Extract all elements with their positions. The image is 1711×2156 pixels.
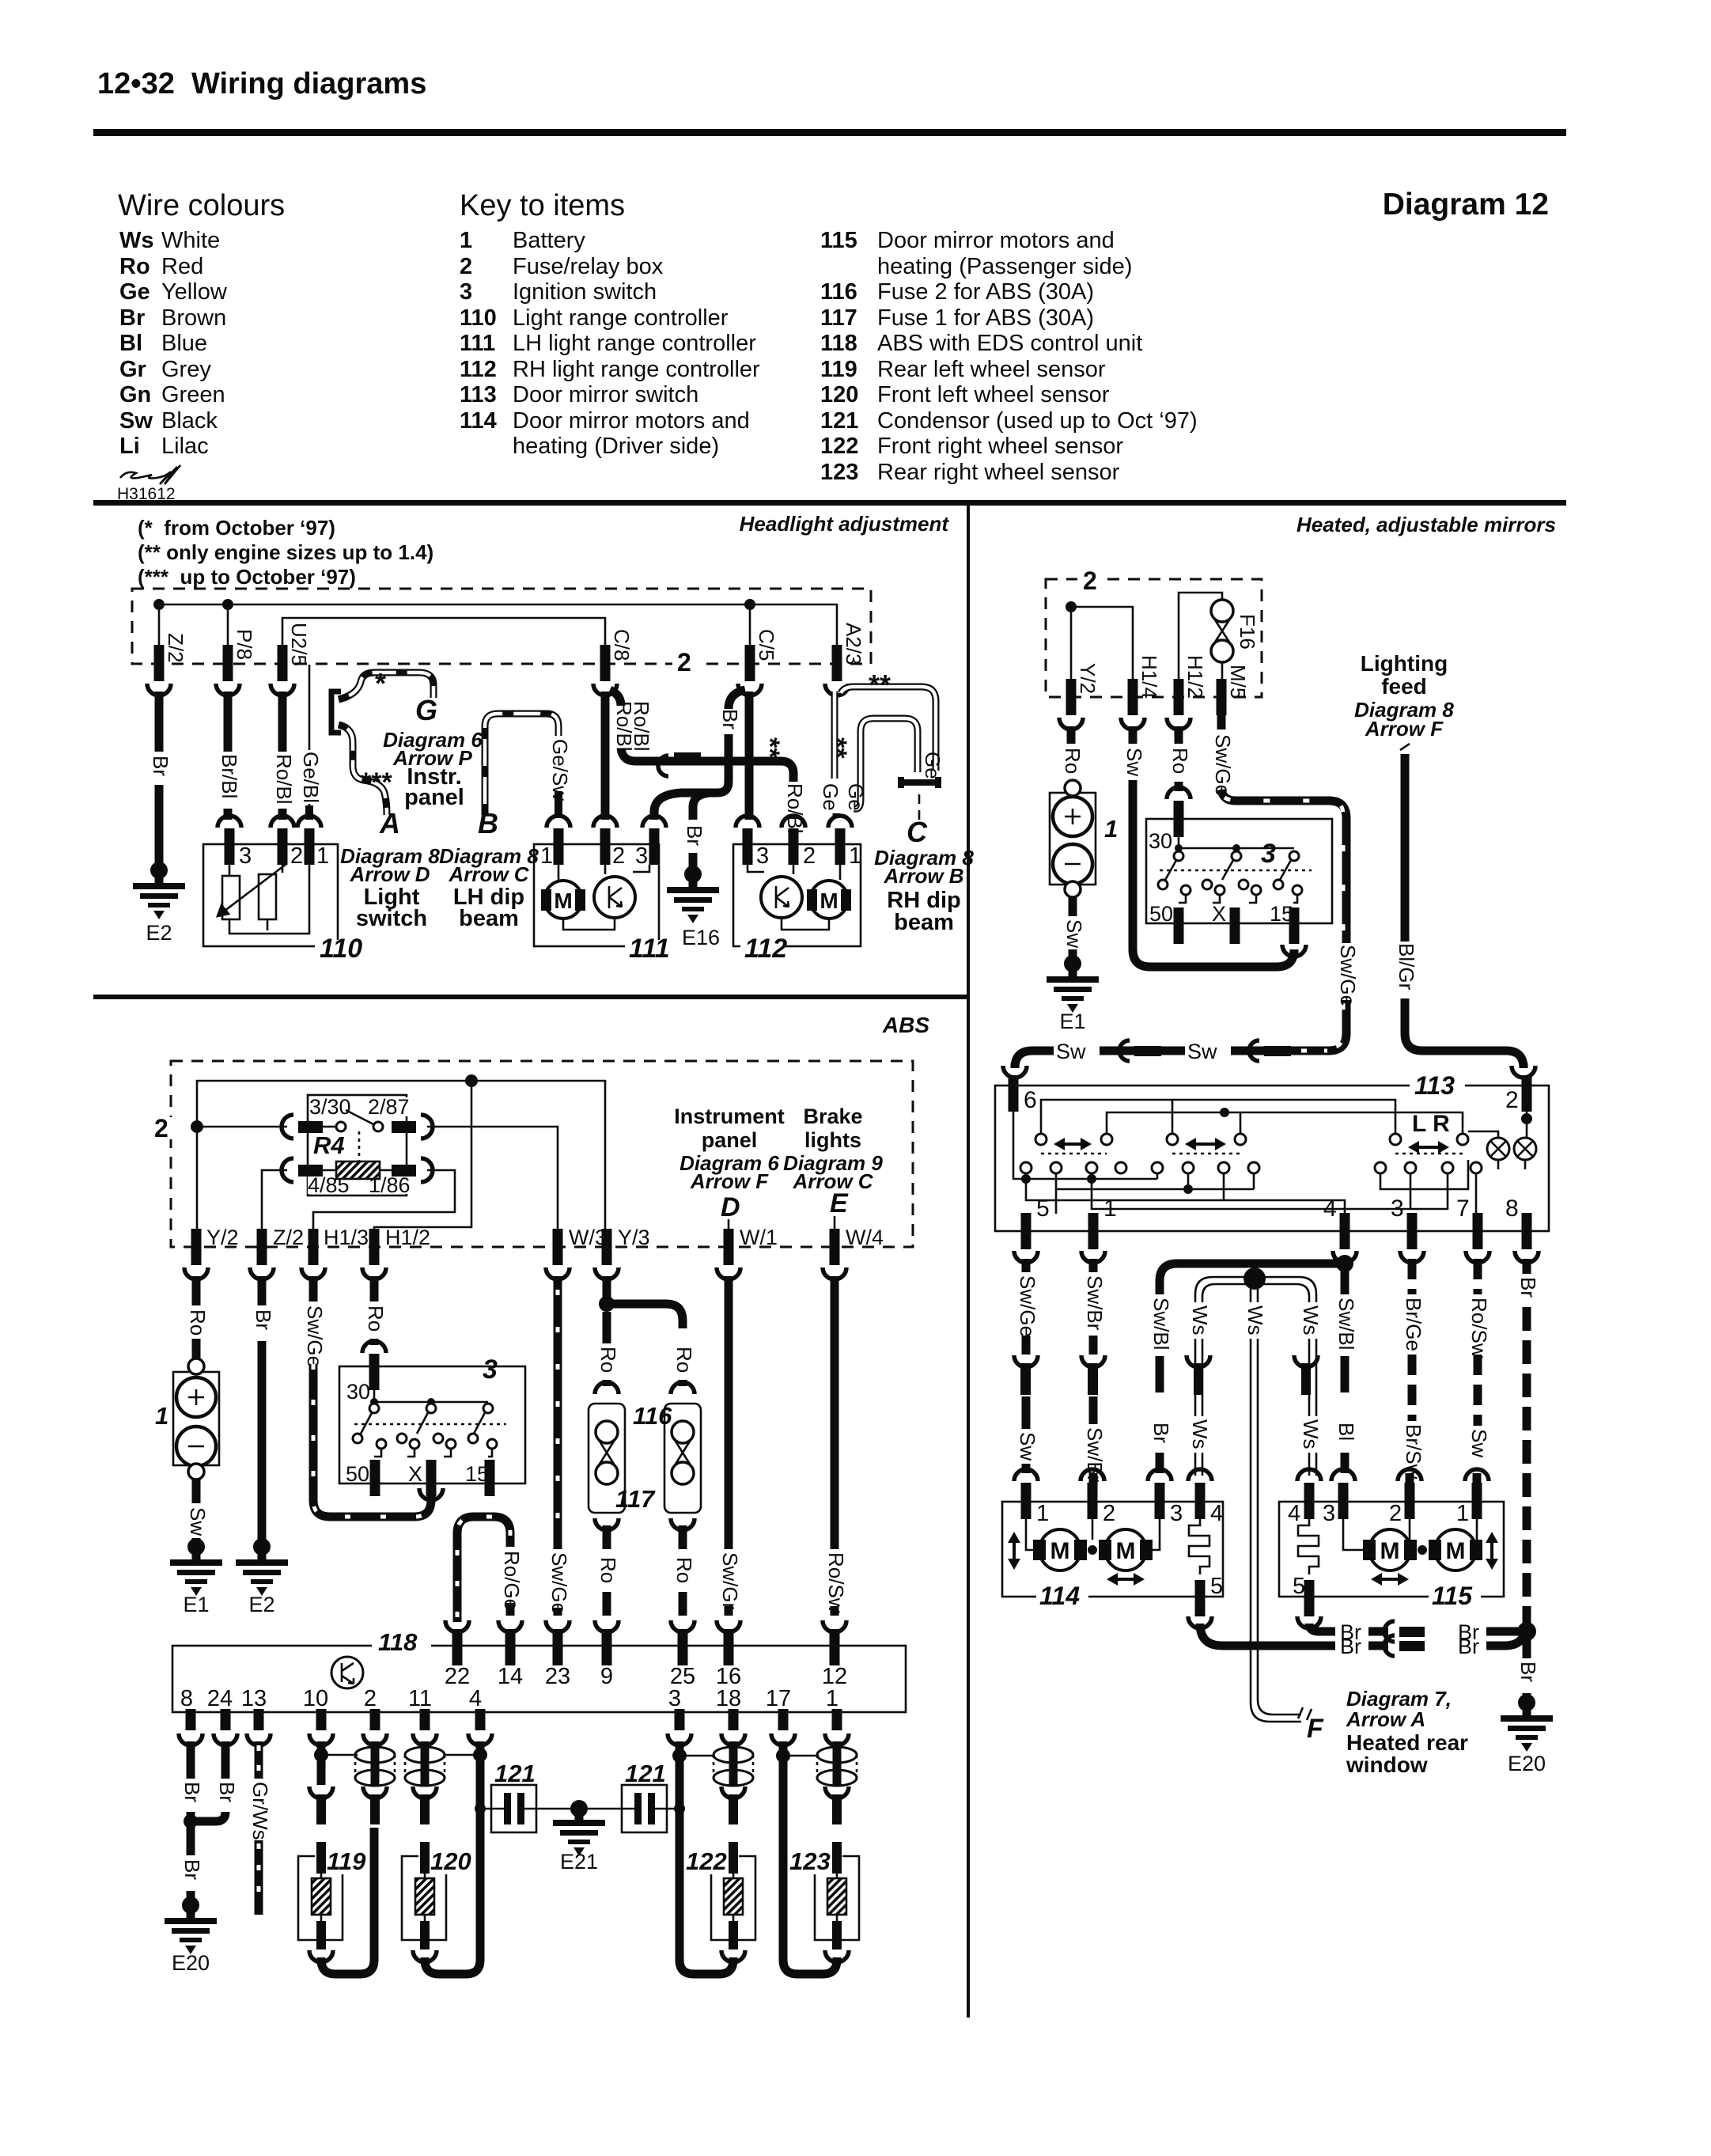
contact arms bbox=[360, 1407, 488, 1435]
svg-text:Ws: Ws bbox=[1244, 1305, 1267, 1336]
wire into sensor 120 bbox=[420, 1842, 430, 1874]
svg-text:111: 111 bbox=[629, 934, 670, 964]
sensor 119 lower bar bbox=[316, 1921, 326, 1949]
114 motor 1 bbox=[1033, 1540, 1046, 1560]
svg-text:2: 2 bbox=[1083, 566, 1097, 595]
sideways connector upper bbox=[1384, 1621, 1395, 1642]
svg-text:Fuse 1 for ABS (30A): Fuse 1 for ABS (30A) bbox=[877, 305, 1094, 331]
svg-text:123: 123 bbox=[789, 1847, 831, 1875]
svg-text:(* from October ‘97): (* from October ‘97) bbox=[138, 516, 335, 540]
svg-text:119: 119 bbox=[327, 1847, 366, 1875]
svg-text:Bl: Bl bbox=[119, 331, 142, 356]
114 pin 5 bbox=[1195, 1580, 1206, 1616]
wire Ro to battery bbox=[1067, 782, 1076, 790]
svg-text:114: 114 bbox=[1039, 1582, 1080, 1610]
coil pair 2 bbox=[421, 1745, 430, 1787]
junction dot pin 10 bbox=[314, 1748, 328, 1762]
bus wire lower inside fuse box bbox=[282, 618, 605, 645]
svg-text:B: B bbox=[478, 807, 498, 839]
rh dip beam box 112 bbox=[733, 844, 861, 946]
svg-text:Ro: Ro bbox=[596, 1347, 620, 1373]
svg-text:Li: Li bbox=[119, 434, 140, 459]
wire Y/2 down bbox=[192, 1276, 201, 1305]
pin5 cup bbox=[1014, 1251, 1038, 1263]
connector cup at X bbox=[419, 1488, 443, 1500]
pin 3 connector bbox=[675, 1694, 685, 1730]
svg-text:1: 1 bbox=[316, 843, 329, 869]
svg-text:window: window bbox=[1346, 1752, 1428, 1777]
R4 top left pin bbox=[298, 1121, 323, 1133]
svg-text:**: ** bbox=[822, 737, 852, 759]
connector into 110 pin 1 bbox=[305, 805, 313, 820]
connector Y/2 bbox=[1066, 679, 1077, 715]
sensor 123 lower bar bbox=[832, 1921, 842, 1949]
svg-text:14: 14 bbox=[498, 1664, 523, 1689]
114 motor 2 bbox=[1099, 1540, 1111, 1560]
svg-text:Front left wheel sensor: Front left wheel sensor bbox=[877, 382, 1110, 407]
svg-text:8: 8 bbox=[180, 1686, 193, 1711]
wire to 114-3 bbox=[1156, 1453, 1164, 1473]
svg-text:E20: E20 bbox=[172, 1951, 210, 1975]
wire pin 2 top bbox=[371, 1741, 380, 1749]
connector 16 bbox=[717, 1620, 740, 1632]
pin8 cup bbox=[1515, 1251, 1539, 1263]
svg-text:Sw/Ge: Sw/Ge bbox=[547, 1552, 571, 1614]
pin 1 connector bbox=[832, 1694, 842, 1730]
svg-text:LH light range controller: LH light range controller bbox=[513, 331, 756, 356]
svg-text:E1: E1 bbox=[183, 1593, 209, 1616]
sideways connector on Sw bus bbox=[1119, 1040, 1130, 1061]
svg-text:E: E bbox=[830, 1188, 849, 1218]
svg-text:Ro: Ro bbox=[672, 1557, 696, 1583]
fuse/relay box 2 dashed outline bbox=[171, 1061, 913, 1247]
pin 4 connector bbox=[475, 1694, 486, 1730]
wire M/5 striped path bbox=[1221, 790, 1346, 1051]
svg-text:Ro: Ro bbox=[186, 1309, 210, 1336]
elbow to 114-3 bbox=[1160, 1264, 1345, 1294]
wire Ro/Ge lower bbox=[506, 1603, 515, 1616]
wire 113-1 mid bbox=[1089, 1336, 1098, 1355]
svg-text:118: 118 bbox=[378, 1628, 418, 1656]
svg-text:118: 118 bbox=[820, 331, 857, 356]
svg-text:(*** up to October ‘97): (*** up to October ‘97) bbox=[138, 565, 356, 589]
wire Z/2 to E2 bbox=[258, 1341, 267, 1543]
pin 10 connector mid bbox=[309, 1787, 333, 1798]
svg-text:Green: Green bbox=[161, 382, 225, 407]
connector M/5 bbox=[1217, 679, 1227, 715]
pin 8 connector bbox=[1522, 1213, 1532, 1249]
svg-text:Yellow: Yellow bbox=[161, 279, 228, 305]
branch to E16 stub bbox=[693, 793, 710, 820]
wire C/5 right Br with stars bbox=[745, 692, 754, 820]
riser C/5 bbox=[749, 604, 751, 645]
legend bottom rule bbox=[93, 500, 1566, 506]
svg-text:Condensor (used up to Oct ‘97): Condensor (used up to Oct ‘97) bbox=[877, 408, 1198, 434]
battery 1 bbox=[173, 1372, 219, 1465]
fuse 117 bbox=[671, 1382, 695, 1394]
stub D to W/1 bbox=[728, 1219, 730, 1229]
svg-text:Br: Br bbox=[215, 1782, 239, 1802]
wire 113-1 lower bbox=[1089, 1396, 1098, 1424]
connector W/3 bbox=[553, 1229, 563, 1265]
svg-text:2: 2 bbox=[677, 648, 691, 676]
connector 30 bbox=[1167, 787, 1191, 799]
svg-text:Headlight adjustment: Headlight adjustment bbox=[740, 512, 950, 536]
fuse/relay box 2 dashed outline bbox=[1046, 579, 1262, 697]
contact links bbox=[374, 1449, 492, 1457]
wire Y/3 down bbox=[603, 1276, 611, 1298]
wire loop 119 bbox=[321, 1828, 374, 1974]
svg-text:Ws: Ws bbox=[1188, 1419, 1212, 1449]
svg-text:115: 115 bbox=[820, 228, 857, 253]
condensor left leads bbox=[484, 1808, 574, 1810]
sensor 120 lower bar bbox=[420, 1921, 430, 1949]
fuse 116 bbox=[595, 1382, 619, 1394]
white dashes on Sw bus bbox=[1301, 1049, 1327, 1053]
section divider vertical bbox=[967, 500, 970, 2018]
lh dip beam box 111 bbox=[534, 844, 659, 946]
pin7 cup bbox=[1466, 1251, 1490, 1263]
wire to 115-2 bbox=[1406, 1473, 1414, 1484]
svg-text:M: M bbox=[820, 889, 838, 913]
Ws stem label bbox=[1242, 1302, 1264, 1339]
svg-text:Br: Br bbox=[180, 1859, 204, 1880]
svg-text:3: 3 bbox=[483, 1355, 498, 1385]
connector Y/3 bbox=[602, 1229, 612, 1265]
wire 114-3 mid bbox=[1156, 1356, 1164, 1392]
connector cup pin6 bbox=[1003, 1066, 1027, 1078]
pin 3 connector bbox=[1407, 1213, 1418, 1249]
svg-text:Ro/Bl: Ro/Bl bbox=[272, 754, 296, 805]
condensor 121 left box bbox=[491, 1785, 536, 1832]
fuse F16 bbox=[1211, 600, 1233, 622]
wire into sensor 122 bbox=[729, 1842, 738, 1874]
pin 18 connector bbox=[729, 1694, 739, 1730]
svg-text:Sw/Ge: Sw/Ge bbox=[303, 1305, 327, 1367]
svg-text:X: X bbox=[1212, 902, 1226, 926]
115 internal wires bbox=[1343, 1519, 1482, 1550]
connector into 112 pin 1 bbox=[828, 816, 852, 828]
svg-text:heating (Driver side): heating (Driver side) bbox=[513, 434, 719, 459]
svg-text:C/5: C/5 bbox=[755, 629, 778, 661]
pin1 cup bbox=[1081, 1251, 1105, 1263]
wire label Bl/Gr bbox=[1396, 942, 1414, 998]
thin wire Ge/Bl bbox=[309, 665, 311, 750]
wire H1/4 down Sw bbox=[1129, 726, 1138, 744]
svg-text:3: 3 bbox=[460, 279, 472, 305]
svg-text:Rear left wheel sensor: Rear left wheel sensor bbox=[877, 357, 1106, 382]
wire pin 11 bbox=[421, 1741, 430, 1749]
stem end ticks bbox=[1298, 1707, 1312, 1720]
svg-text:White: White bbox=[161, 228, 220, 253]
ABS control unit 118 box bbox=[172, 1646, 906, 1712]
wire H1/3 down bbox=[309, 1276, 318, 1302]
svg-text:1: 1 bbox=[155, 1402, 168, 1430]
svg-text:Ws: Ws bbox=[1299, 1305, 1323, 1336]
svg-text:Sw: Sw bbox=[1056, 1040, 1086, 1063]
sensor 122 lower bar bbox=[729, 1921, 738, 1949]
wire pin 13 Gr/Ws striped bbox=[255, 1741, 263, 1779]
wire to E1 bbox=[192, 1538, 201, 1543]
R4 switch contact right bbox=[373, 1122, 383, 1131]
pin 1 connector mid bbox=[825, 1787, 849, 1798]
svg-text:Br/Bl: Br/Bl bbox=[218, 754, 241, 798]
svg-text:1: 1 bbox=[1104, 815, 1118, 843]
wire Y/3 to fuse 116 bbox=[603, 1312, 611, 1343]
connector 9 bbox=[595, 1620, 619, 1632]
wire label Ro/Sw bbox=[826, 1552, 844, 1603]
connector Y/2 bbox=[191, 1229, 202, 1265]
115 vertical arrow bbox=[1490, 1540, 1493, 1562]
wire Ro to ignition 30 bbox=[1175, 782, 1183, 791]
wire Br final bbox=[1523, 1693, 1531, 1699]
svg-text:Br: Br bbox=[119, 305, 145, 331]
wire 113-1 upper bbox=[1089, 1259, 1098, 1272]
114 vertical arrow bbox=[1013, 1540, 1016, 1562]
label 114 bbox=[1036, 1589, 1088, 1605]
connector A2/3 bbox=[832, 645, 842, 681]
svg-text:Brown: Brown bbox=[161, 305, 226, 331]
dotted group2 bbox=[1172, 1153, 1240, 1155]
wire pin 8 mid bbox=[187, 1812, 195, 1855]
sensor box 123 bbox=[815, 1856, 859, 1940]
wire W/1 to 118 pin 16 bbox=[725, 1606, 733, 1616]
connector Z/2 bbox=[154, 645, 165, 681]
svg-text:4: 4 bbox=[1323, 1195, 1337, 1222]
junction dot Br bbox=[1517, 1622, 1536, 1641]
svg-text:Battery: Battery bbox=[513, 228, 585, 253]
svg-text:Fuse 2 for ABS (30A): Fuse 2 for ABS (30A) bbox=[877, 279, 1094, 305]
svg-text:Ro: Ro bbox=[1168, 748, 1192, 774]
svg-text:Y/3: Y/3 bbox=[618, 1226, 650, 1249]
svg-text:121: 121 bbox=[494, 1760, 536, 1787]
connector U2/5 bbox=[278, 645, 288, 681]
thin wire Ge/Bl lower bbox=[309, 804, 311, 815]
connector C/5 bbox=[745, 645, 755, 681]
svg-text:Arrow D: Arrow D bbox=[349, 862, 430, 886]
svg-text:Sw: Sw bbox=[119, 408, 153, 434]
svg-text:Grey: Grey bbox=[161, 357, 211, 382]
connector mid 5 bbox=[1014, 1355, 1038, 1367]
svg-text:1: 1 bbox=[849, 843, 861, 869]
svg-text:12•32 Wiring diagrams: 12•32 Wiring diagrams bbox=[97, 67, 426, 100]
R4 switch arm bbox=[346, 1110, 373, 1124]
svg-text:R4: R4 bbox=[313, 1131, 345, 1159]
svg-text:Black: Black bbox=[161, 408, 218, 434]
svg-text:Gr: Gr bbox=[119, 357, 146, 382]
svg-text:Sw: Sw bbox=[1467, 1429, 1491, 1457]
bus wire inside fuse box bbox=[159, 604, 837, 664]
wire pin 10 bbox=[317, 1741, 326, 1785]
svg-text:30: 30 bbox=[1149, 829, 1172, 853]
wire 113-3 mid dashed bbox=[1408, 1355, 1417, 1421]
svg-text:Br: Br bbox=[1516, 1277, 1540, 1298]
connector P/8 bbox=[223, 645, 233, 681]
wire pin 8 Br upper bbox=[187, 1741, 195, 1779]
sideways connector on branch bbox=[658, 756, 668, 776]
svg-text:120: 120 bbox=[820, 382, 858, 407]
svg-text:Red: Red bbox=[161, 254, 203, 279]
Ws labels upper bbox=[1187, 1302, 1209, 1339]
wire bus to R4 3/30 bbox=[197, 1126, 287, 1128]
svg-text:Ge: Ge bbox=[819, 783, 842, 811]
wire C/8 branch to 112 pin 2 bbox=[610, 690, 621, 706]
wire into sensor 123 bbox=[832, 1842, 842, 1874]
wire Ge/Sw lower into 111 pin 1 bbox=[555, 791, 562, 818]
svg-text:3: 3 bbox=[1323, 1501, 1335, 1526]
coil pair 4 bbox=[833, 1745, 842, 1787]
svg-text:Sw/Bl: Sw/Bl bbox=[1334, 1298, 1358, 1350]
svg-text:Sw/Ge: Sw/Ge bbox=[1211, 734, 1235, 796]
label 2 bbox=[1077, 571, 1104, 590]
mirror box 115 bbox=[1279, 1502, 1504, 1597]
wire to 115-1 bbox=[1473, 1473, 1482, 1484]
svg-text:121: 121 bbox=[820, 408, 858, 434]
connector H1/4 bbox=[1128, 679, 1138, 715]
svg-text:18: 18 bbox=[716, 1686, 741, 1711]
contact links bbox=[1179, 895, 1297, 903]
svg-text:3: 3 bbox=[239, 843, 252, 869]
sideways connector 2 on Sw bus bbox=[1249, 1040, 1259, 1061]
svg-text:1: 1 bbox=[1103, 1195, 1117, 1222]
113 internal mesh bbox=[1041, 1100, 1395, 1135]
svg-text:15: 15 bbox=[465, 1462, 489, 1486]
dotted row bbox=[1160, 870, 1312, 872]
111 motor M bbox=[543, 889, 555, 911]
wire Z/2 to E2 upper bbox=[155, 692, 164, 752]
R4 right top contact cup bbox=[421, 1115, 433, 1139]
svg-text:F: F bbox=[1307, 1714, 1324, 1744]
wire into fuse 117 bbox=[679, 1380, 687, 1386]
svg-text:50: 50 bbox=[346, 1462, 369, 1486]
svg-text:Sw/Ge: Sw/Ge bbox=[1016, 1275, 1039, 1337]
contact arms bbox=[1164, 854, 1294, 881]
transistor symbol K bbox=[331, 1657, 363, 1688]
svg-text:122: 122 bbox=[820, 434, 858, 459]
connector W/1 bbox=[724, 1229, 734, 1265]
115 heater zigzag bbox=[1298, 1519, 1319, 1574]
svg-text:Ws: Ws bbox=[119, 228, 154, 253]
wire pin 8 to E20 bbox=[187, 1891, 195, 1899]
svg-text:Diagram 12: Diagram 12 bbox=[1383, 188, 1549, 222]
terminal 50 bbox=[370, 1460, 380, 1496]
junction dot Z/2 bbox=[153, 599, 165, 610]
wire R4 1/86 to H1/3 bbox=[313, 1170, 455, 1229]
svg-text:G: G bbox=[415, 694, 437, 726]
svg-text:3: 3 bbox=[1170, 1501, 1183, 1526]
svg-text:114: 114 bbox=[460, 408, 497, 434]
wire to E1 bbox=[1069, 949, 1077, 959]
junction dot pins 8-24 bbox=[184, 1814, 198, 1828]
junction dot pin 17 bbox=[776, 1749, 790, 1763]
wire loop 122 bbox=[679, 1957, 733, 1974]
internal wire Y/2 riser bbox=[1071, 607, 1133, 679]
R4 switch wire bbox=[323, 1126, 335, 1128]
wire 113-3 dashed Br/Ge bbox=[1408, 1259, 1417, 1294]
wire Bl/Gr top tick bbox=[1400, 744, 1410, 750]
112 adjuster motor bbox=[761, 877, 802, 918]
sensor 120 resistor bbox=[424, 1874, 426, 1921]
svg-text:111: 111 bbox=[460, 331, 495, 356]
junction dot Y/2 riser bbox=[191, 1120, 203, 1133]
wire into sensor 119 bbox=[316, 1842, 326, 1874]
R4 bottom right pin bbox=[392, 1165, 416, 1177]
lamp right bbox=[1514, 1138, 1536, 1160]
wire C/5 branch down bbox=[708, 734, 729, 793]
label 110 bbox=[315, 940, 361, 954]
junction dot Ws bbox=[1244, 1267, 1266, 1290]
terminal X bbox=[426, 1460, 437, 1496]
lamp wiring bbox=[1521, 1113, 1532, 1124]
svg-text:Bl/Gr: Bl/Gr bbox=[1395, 943, 1418, 991]
label 2 bbox=[152, 1117, 174, 1139]
svg-text:M: M bbox=[554, 889, 572, 913]
hollow wire triple-star to A bbox=[339, 725, 387, 815]
svg-text:Br: Br bbox=[1340, 1635, 1361, 1658]
svg-text:Ro: Ro bbox=[1061, 748, 1085, 774]
wire loop 120 bbox=[425, 1763, 480, 1974]
riser P/8 bbox=[227, 604, 229, 645]
arrow group2 bbox=[1193, 1142, 1218, 1146]
svg-text:Br: Br bbox=[252, 1309, 275, 1330]
wire H1/2 to ignition 30 bbox=[370, 1339, 379, 1345]
condensor left plates bbox=[504, 1793, 511, 1824]
svg-text:Lilac: Lilac bbox=[161, 434, 209, 459]
svg-text:2: 2 bbox=[803, 843, 816, 869]
ignition internals bbox=[374, 1390, 488, 1407]
arrow group3 bbox=[1416, 1146, 1441, 1149]
svg-text:112: 112 bbox=[460, 357, 497, 382]
svg-text:Heated, adjustable mirrors: Heated, adjustable mirrors bbox=[1296, 513, 1556, 536]
ground E20 bbox=[1501, 1694, 1553, 1752]
connector H1/2 bbox=[1174, 679, 1184, 715]
svg-text:1: 1 bbox=[1456, 1501, 1469, 1526]
hollow wire inner loop to C bbox=[854, 718, 918, 809]
stub E to W/4 bbox=[834, 1216, 836, 1229]
svg-text:Br: Br bbox=[149, 756, 172, 776]
link to coil pair2 bbox=[445, 1754, 480, 1756]
wire label Sw/Gr bbox=[720, 1552, 738, 1603]
svg-text:W/4: W/4 bbox=[846, 1226, 884, 1249]
terminal 15 bbox=[485, 1460, 495, 1496]
svg-text:113: 113 bbox=[460, 382, 497, 407]
connector 25 bbox=[671, 1620, 695, 1632]
wire R4 4/85 to Z/2 bbox=[262, 1170, 287, 1229]
svg-text:Front right wheel sensor: Front right wheel sensor bbox=[877, 434, 1123, 459]
svg-text:Fuse/relay box: Fuse/relay box bbox=[513, 254, 664, 279]
Br wire bbox=[1368, 1627, 1388, 1636]
svg-text:123: 123 bbox=[820, 460, 858, 485]
svg-text:Sw/Ge: Sw/Ge bbox=[1336, 945, 1360, 1006]
svg-text:***: *** bbox=[361, 767, 392, 798]
pin 2 connector bbox=[1522, 1075, 1532, 1112]
bus wire top bbox=[197, 1081, 605, 1233]
junction dot bbox=[1066, 601, 1077, 612]
svg-text:3: 3 bbox=[756, 843, 769, 869]
svg-text:Y/2: Y/2 bbox=[1076, 663, 1100, 694]
svg-text:3: 3 bbox=[635, 843, 648, 869]
junction dot Y/3 bbox=[599, 1296, 615, 1312]
wire Bl/Gr bbox=[1405, 754, 1524, 1068]
svg-text:15: 15 bbox=[1270, 902, 1293, 926]
svg-text:2: 2 bbox=[460, 254, 472, 279]
svg-text:9: 9 bbox=[600, 1664, 613, 1689]
pivot contacts group3 bbox=[1390, 1134, 1401, 1145]
wire pin 1 bbox=[833, 1741, 842, 1749]
svg-text:switch: switch bbox=[356, 906, 427, 931]
svg-text:121: 121 bbox=[625, 1760, 666, 1787]
wire Ro/Ge loop 22 to 14 bbox=[457, 1517, 510, 1622]
